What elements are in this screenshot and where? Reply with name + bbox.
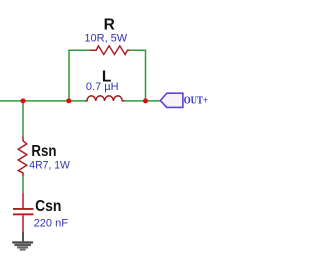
wire: snubber branch vertical (between Rsn and Csn) xyxy=(22,176,24,193)
wire: parallel-loop right side and top-right segment xyxy=(130,50,146,101)
resistor Rsn symbol (vertical zigzag) xyxy=(18,136,27,176)
svg-text:0.7 µH: 0.7 µH xyxy=(86,81,119,93)
capacitor Csn bottom plate xyxy=(13,213,34,215)
resistor R symbol (zigzag) xyxy=(90,46,130,55)
svg-text:10R, 5W: 10R, 5W xyxy=(84,32,127,44)
ground symbol lead (black) xyxy=(22,232,24,241)
capacitor Csn top plate xyxy=(13,208,34,210)
svg-text:220 nF: 220 nF xyxy=(34,217,69,229)
svg-text:R: R xyxy=(104,16,115,33)
ground symbol bars xyxy=(12,241,33,250)
svg-text:4R7, 1W: 4R7, 1W xyxy=(29,159,70,171)
svg-text:Rsn: Rsn xyxy=(31,143,56,160)
junction node: loop right xyxy=(143,98,148,103)
inductor L symbol (4 humps) xyxy=(85,96,125,101)
capacitor Csn bottom lead xyxy=(22,215,24,232)
wire: parallel-loop left side and top-left segment xyxy=(69,50,90,101)
svg-text:Csn: Csn xyxy=(35,198,61,215)
capacitor Csn symbol: top lead xyxy=(22,193,24,208)
junction node: snubber tap xyxy=(21,98,26,103)
wire: main horizontal net from left edge to OUT+ port xyxy=(0,100,160,102)
junction node: loop left xyxy=(66,98,71,103)
port OUT+ pentagon symbol xyxy=(160,93,183,107)
svg-text:OUT+: OUT+ xyxy=(184,95,208,106)
wire: snubber branch vertical (top segment) xyxy=(22,101,24,136)
